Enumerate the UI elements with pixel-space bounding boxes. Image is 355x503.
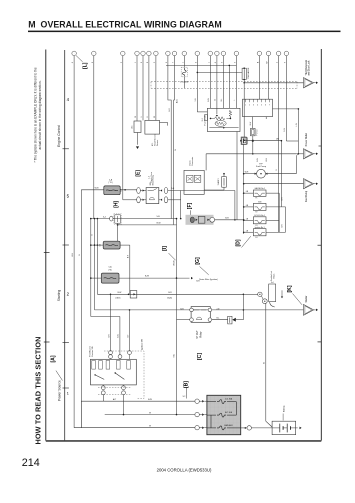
gray connector E (5-A) xyxy=(104,186,120,195)
svg-text:[B]: [B] xyxy=(184,381,190,388)
power wire 3 (battery main) xyxy=(74,427,195,429)
svg-text:8: 8 xyxy=(147,117,149,118)
vertical link between power wires xyxy=(80,401,82,428)
terminal circle T12 xyxy=(208,51,213,56)
auxiliary vertical near bus xyxy=(236,132,238,220)
svg-text:Main Relay: Main Relay xyxy=(153,175,155,185)
svg-text:[F]: [F] xyxy=(187,202,193,209)
wire bend to ignition feed xyxy=(91,316,120,318)
wire down from meter output xyxy=(297,109,299,154)
wire ignition AM2 down xyxy=(123,395,125,415)
svg-text:3: 3 xyxy=(253,104,254,106)
wire from T4 down to sensor box 1 xyxy=(136,56,138,121)
svg-text:(*A-B): (*A-B) xyxy=(167,297,172,300)
ignition feed wire xyxy=(119,277,190,279)
terminal circle T14 xyxy=(221,51,226,56)
sender box left pin xyxy=(205,115,208,121)
wire bend to crank wire xyxy=(96,219,98,295)
wire from T13 down to fuel sender box xyxy=(216,56,218,109)
+B distribution wire xyxy=(166,64,236,66)
wire from T2 down xyxy=(93,56,95,219)
direction arrow near fusible link xyxy=(281,290,283,296)
starter signal wire xyxy=(95,309,304,311)
fusible link row 1-2 link xyxy=(235,402,237,416)
noise filter box xyxy=(198,216,205,223)
svg-text:and Door Lock: and Door Lock xyxy=(308,60,311,76)
svg-text:B-W: B-W xyxy=(157,222,161,224)
vertical from crank junction down to relay contact xyxy=(242,294,244,319)
wire down to ignition SW 2 xyxy=(119,317,121,355)
sender internal resistor vertical xyxy=(229,110,232,116)
terminal circle T6 xyxy=(147,51,152,56)
svg-text:214: 214 xyxy=(22,457,40,469)
svg-text:[G]: [G] xyxy=(195,257,201,265)
wire out of gray connector 3-6 xyxy=(120,244,130,246)
wire from T16 down to combination meter xyxy=(258,56,260,99)
left border section tick at y=252 xyxy=(44,251,50,253)
main center vertical wire x=176.5 xyxy=(176,219,178,415)
svg-text:[H]: [H] xyxy=(114,201,120,208)
relay output vertical xyxy=(180,191,182,219)
wire fusible block to battery xyxy=(241,427,247,429)
wire T19 horizontal to junction xyxy=(286,140,298,142)
svg-text:Fuel Sender: Fuel Sender xyxy=(205,114,207,125)
wire bus to fuse 1 xyxy=(244,192,254,194)
out-connector triangle 3 xyxy=(304,179,314,189)
fusible link pictorial box xyxy=(269,284,276,302)
svg-text:ALT 40A: ALT 40A xyxy=(225,411,233,414)
bus tick y=392.3 (small) xyxy=(63,387,69,389)
svg-text:B-W: B-W xyxy=(250,121,252,125)
right border section tick at y=342 xyxy=(318,341,322,343)
meter bottom pin 2 xyxy=(265,117,267,119)
svg-text:Starter: Starter xyxy=(305,295,308,302)
wire fuse 1 output xyxy=(266,192,279,194)
wire down to ignition SW 3 xyxy=(129,310,131,351)
wire T11 to fuel sender box xyxy=(197,111,207,113)
relay output bend down to filter wire xyxy=(234,191,236,220)
ignition switch lever 2 xyxy=(115,373,124,379)
vertical wire B-Y xyxy=(129,245,131,294)
svg-text:* The system shown here is an: * The system shown here is an EXAMPLE ON… xyxy=(34,67,38,162)
wire crank junction to circle xyxy=(243,293,257,295)
terminal circle T2 xyxy=(92,51,97,56)
wire gray connector E to relay xyxy=(120,189,137,191)
sensor box 2 output wire xyxy=(160,121,168,123)
svg-text:9: 9 xyxy=(141,117,143,118)
fusible link AM2 symbol xyxy=(182,68,186,77)
terminal circle T10 xyxy=(182,51,187,56)
terminal circle T8 xyxy=(166,51,171,56)
J/B fuse box 1 (GAUGE No.1) xyxy=(253,190,266,196)
fuse 7.5A GAUGE xyxy=(242,68,246,79)
right border tick y=146 xyxy=(319,145,322,147)
wire meter pin to fuse xyxy=(252,119,254,128)
svg-text:W: W xyxy=(175,149,177,151)
terminal circle T7 xyxy=(154,51,159,56)
svg-text:B-W: B-W xyxy=(145,276,149,278)
auxiliary vertical wire xyxy=(280,141,282,207)
gray band behind noise filter chain xyxy=(186,215,214,225)
wire to triangle 3 xyxy=(244,183,304,185)
wire from T15 down to fuel sender box xyxy=(235,56,237,109)
wire bus to fuse 4 xyxy=(244,231,254,233)
fuel pump motor circle xyxy=(257,169,266,178)
wire terminal to battery feed xyxy=(265,303,266,305)
pointer line for [A] xyxy=(56,371,63,381)
relay corner terminals xyxy=(190,308,194,312)
terminal circle T19 xyxy=(284,51,289,56)
bus tick y=342.4 xyxy=(63,341,69,343)
svg-text:Position SW: Position SW xyxy=(91,346,94,357)
terminal circle T1 xyxy=(72,51,77,56)
terminal ellipse on ACC wire xyxy=(110,216,113,221)
svg-text:DM: DM xyxy=(276,138,279,140)
fusible link row 2-3 link xyxy=(210,415,212,428)
pointer line for [G] xyxy=(200,267,209,275)
wire from T12 down to fuel sender box xyxy=(209,56,211,109)
DM wire xyxy=(244,140,282,142)
wire from T11 down xyxy=(196,56,198,112)
J/B fuse box 2 (IGN) xyxy=(253,203,266,210)
svg-text:Ignition SW: Ignition SW xyxy=(141,338,144,350)
second wire to check area xyxy=(118,224,177,226)
connector circles into fusible link block xyxy=(195,399,199,403)
system number bus line xyxy=(64,50,66,441)
small connector box on DM wire xyxy=(242,138,247,145)
gray connector 5-A lower xyxy=(101,273,119,283)
svg-text:L-W: L-W xyxy=(296,123,298,127)
lower connector dashed lines xyxy=(98,386,131,388)
svg-text:MAIN AM1: MAIN AM1 xyxy=(224,424,233,427)
svg-text:B-W: B-W xyxy=(118,292,122,294)
svg-text:Park/Neutral: Park/Neutral xyxy=(88,346,91,357)
combination meter box xyxy=(243,99,273,116)
svg-text:Battery: Battery xyxy=(283,404,286,412)
diode component near relay xyxy=(228,316,232,324)
svg-text:ACC: ACC xyxy=(176,98,179,103)
J/B fuse box 3 (ECU-IG No.1) xyxy=(253,217,266,224)
crank signal wire xyxy=(97,293,243,295)
noise filter input connector xyxy=(190,217,194,223)
inline connector on crank wire xyxy=(130,291,137,298)
svg-text:G-W: G-W xyxy=(284,128,286,132)
junction block dashed boundary top xyxy=(151,81,297,83)
svg-text:B-R: B-R xyxy=(225,217,229,219)
svg-text:W-B: W-B xyxy=(95,188,100,190)
wire down to ignition SW 1 xyxy=(110,294,112,350)
J/B fuse box 4 (Ignition No.1) xyxy=(253,229,266,236)
wire below fusible link AM2 xyxy=(183,77,185,89)
terminal circle pair xyxy=(258,292,262,296)
relay terminal ellipse left bottom xyxy=(137,197,141,203)
terminal circle T9 xyxy=(172,51,177,56)
fuel sender gauge box xyxy=(207,108,240,131)
relay terminal ellipse right bottom xyxy=(164,197,168,203)
relay left wire to center vertical xyxy=(177,319,190,321)
ignition switch box xyxy=(91,359,137,385)
out-connector triangle K (to starter) xyxy=(304,305,314,316)
terminal circle T3 xyxy=(121,51,126,56)
svg-text:30: 30 xyxy=(154,116,156,118)
sensor box 2 xyxy=(145,120,160,134)
svg-text:P 1 Two: P 1 Two xyxy=(257,129,259,135)
meter output wire right xyxy=(273,108,299,110)
gray connector 3-6 xyxy=(103,241,120,249)
wire from T5 down to sensor box 2 xyxy=(142,56,144,121)
sender resistor coil ellipse xyxy=(215,121,226,127)
svg-text:[E]: [E] xyxy=(135,170,141,177)
svg-text:2.0L 80A: 2.0L 80A xyxy=(225,398,233,401)
noise filter output wire xyxy=(215,219,244,221)
diagram left border xyxy=(45,50,47,441)
svg-text:ECU-IG No.1: ECU-IG No.1 xyxy=(255,215,265,217)
fusible link row 3 xyxy=(207,427,216,429)
terminal circle T4 xyxy=(135,51,140,56)
pointer line for [L] xyxy=(76,56,83,62)
svg-text:Fuel Pump: Fuel Pump xyxy=(306,190,308,202)
fusible link row 1 xyxy=(207,401,216,403)
power wire 2 (AM1) xyxy=(105,414,195,416)
pointer line for [K] xyxy=(293,294,303,305)
svg-text:Connector: Connector xyxy=(191,156,194,166)
EFI fuse near pump xyxy=(222,177,227,188)
svg-text:HOW TO READ THIS SECTION: HOW TO READ THIS SECTION xyxy=(34,336,43,444)
svg-text:actual circuit shown in the wi: actual circuit shown in the wiring diagr… xyxy=(38,80,42,149)
svg-text:Power Outlet: Power Outlet xyxy=(305,133,308,147)
fusible link row 2 xyxy=(207,414,216,416)
wire fuse down to junction xyxy=(252,136,254,154)
wire T2 junction to left verticals xyxy=(91,218,110,220)
meter bottom pin xyxy=(252,117,254,120)
battery feed vertical wire xyxy=(265,304,267,422)
ignition switch lever 1 xyxy=(95,375,104,380)
svg-text:1: 1 xyxy=(67,392,69,396)
junction block dashed boundary bottom xyxy=(151,87,297,89)
svg-text:[I]: [I] xyxy=(162,246,168,251)
bus tick y=148.8 xyxy=(63,148,69,150)
ignition SW dashed outline xyxy=(104,351,144,399)
out-connector triangle 2 (power outlet) xyxy=(304,149,314,159)
ignition SW connector circles xyxy=(109,351,113,355)
svg-text:2.0L AM2: 2.0L AM2 xyxy=(180,81,189,84)
svg-text:W: W xyxy=(215,99,217,101)
wire fuse 3 output xyxy=(266,219,279,221)
sender bottom internal wire xyxy=(209,127,238,129)
svg-text:[K]: [K] xyxy=(287,285,293,292)
svg-text:Power Source: Power Source xyxy=(58,380,62,401)
svg-text:Ignition No.1: Ignition No.1 xyxy=(255,226,265,229)
wire to gauge fuse xyxy=(197,71,242,73)
svg-text:5: 5 xyxy=(261,104,262,106)
wire from T9 down with jog xyxy=(173,56,176,225)
svg-text:( *B ): ( *B ) xyxy=(108,269,112,271)
svg-text:Theft Deterrent: Theft Deterrent xyxy=(305,60,308,76)
power wire 1 (ALT) xyxy=(81,400,195,402)
svg-text:( *B ): ( *B ) xyxy=(108,182,113,184)
svg-text:Block: Block xyxy=(274,274,276,279)
wire fuse 2 output xyxy=(266,206,286,208)
wire from T17 down to combination meter xyxy=(268,56,270,99)
svg-text:4: 4 xyxy=(257,104,258,106)
vertical wire x=94.5 xyxy=(94,219,96,310)
wire from T10 into fusible link AM2 xyxy=(183,56,185,68)
diagram bottom border xyxy=(46,440,322,442)
small component on fuse bus xyxy=(241,137,246,145)
sender potentiometer xyxy=(215,117,225,120)
right border section tick at y=245 xyxy=(318,244,322,246)
svg-text:3-4: 3-4 xyxy=(271,282,274,284)
svg-text:[D]: [D] xyxy=(235,239,241,246)
svg-text:[L]: [L] xyxy=(82,62,88,69)
svg-text:B-W: B-W xyxy=(257,158,259,162)
ignition SW lower connectors xyxy=(101,386,105,390)
svg-text:B-W: B-W xyxy=(208,98,210,102)
junction block dashed boundary left side xyxy=(150,82,152,89)
pointer line for [F] xyxy=(190,210,192,215)
battery feed corner diagonal xyxy=(266,421,272,427)
svg-text:Fuel Pump: Fuel Pump xyxy=(256,166,267,168)
ACC out wire xyxy=(206,153,296,155)
battery pointer xyxy=(282,414,284,421)
svg-text:W: W xyxy=(149,412,151,414)
wire fuel pump feed to triangle xyxy=(295,156,297,174)
svg-text:L: L xyxy=(234,100,236,101)
relay output wires right xyxy=(168,190,235,192)
svg-text:[C]: [C] xyxy=(197,353,203,360)
wire from gauge fuse down xyxy=(243,79,245,82)
relay terminal ellipse left top xyxy=(137,188,141,194)
terminal circle T13 xyxy=(215,51,220,56)
diode block 2 inside check connector xyxy=(194,175,200,182)
wire from T1 down left long run xyxy=(73,56,75,428)
terminal circle T17 xyxy=(266,51,271,56)
svg-text:7.5A GAUGE: 7.5A GAUGE xyxy=(247,67,250,79)
EFI relay box xyxy=(146,188,159,204)
svg-text:2004 COROLLA (EWD533U): 2004 COROLLA (EWD533U) xyxy=(157,467,212,472)
svg-text:1: 1 xyxy=(245,104,246,106)
small fuse under meter xyxy=(251,128,256,135)
svg-text:GAUGE No.1: GAUGE No.1 xyxy=(254,187,265,190)
svg-text:M OVERALL ELECTRICAL WIRING D: M OVERALL ELECTRICAL WIRING DIAGRAM xyxy=(28,19,222,29)
svg-text:(*B-W): (*B-W) xyxy=(174,260,176,266)
bus tick y=245 xyxy=(63,244,69,246)
title underline xyxy=(28,31,341,32)
relay bottom contact wire xyxy=(212,319,228,321)
fuse on ACC wire xyxy=(115,215,121,223)
pointer line for [D] xyxy=(242,236,251,247)
sensor box 1 xyxy=(134,121,141,133)
svg-text:ST CUT: ST CUT xyxy=(197,330,199,339)
wire from +B to sender resistor xyxy=(228,65,230,108)
svg-text:7: 7 xyxy=(269,104,270,106)
wire T3 to relay coil xyxy=(123,199,137,201)
pointer line for [I] xyxy=(169,253,176,260)
svg-text:16: 16 xyxy=(135,116,137,118)
diode block 1 inside check connector xyxy=(187,175,193,182)
wire bus to fuse 3 xyxy=(244,219,254,221)
wire bus to fuse 2 xyxy=(244,206,254,208)
svg-text:Fusible Link: Fusible Link xyxy=(271,271,273,281)
svg-text:Starting: Starting xyxy=(57,290,61,302)
wire from T18 down to fuse bus xyxy=(278,56,280,233)
shield ground arrow under sensor box 1 xyxy=(137,133,139,145)
svg-text:2: 2 xyxy=(249,104,250,106)
wire from T19 down xyxy=(285,56,287,141)
junction block dashed boundary right side xyxy=(296,82,298,89)
fuse output bus B xyxy=(285,207,287,232)
battery box xyxy=(272,421,296,435)
noise filter output circle xyxy=(210,217,215,222)
svg-text:15A EFI: 15A EFI xyxy=(217,178,220,185)
noise suppressor out-connector triangle xyxy=(304,78,314,88)
fusible link block (gray) xyxy=(207,395,241,434)
wire from T8 down with jog xyxy=(168,56,171,219)
vertical wire x=81 long run xyxy=(80,190,82,428)
check connector box xyxy=(184,170,204,194)
wire from T7 down to sensor box 2 xyxy=(155,56,157,121)
battery output arrow xyxy=(296,427,298,429)
relay terminal ellipse right top xyxy=(164,188,168,194)
svg-text:Sensor: Sensor xyxy=(157,139,159,146)
svg-text:Engine Control: Engine Control xyxy=(57,125,61,147)
svg-text:F1: F1 xyxy=(256,198,258,200)
terminal circle T16 xyxy=(257,51,262,56)
wire pump fuse top xyxy=(223,174,225,177)
svg-text:F4: F4 xyxy=(256,237,258,239)
svg-text:B-L: B-L xyxy=(221,99,223,102)
svg-text:Noise Filter (Ignition): Noise Filter (Ignition) xyxy=(199,278,218,281)
svg-text:6: 6 xyxy=(265,104,266,106)
wire to noise suppressor triangle xyxy=(244,82,303,84)
arrow into diode component xyxy=(231,319,233,321)
noise filter arrow 1 xyxy=(196,219,198,221)
svg-text:F2: F2 xyxy=(256,212,258,214)
vertical wire from ACC line down xyxy=(205,154,207,171)
wire into gray connector 3-6 xyxy=(91,244,103,246)
ACC horizontal wire (5-B) xyxy=(113,218,177,220)
terminal circle T15 xyxy=(234,51,239,56)
diagram right border xyxy=(320,49,322,441)
wire into lower gray connector xyxy=(91,277,102,279)
potentiometer wiper arrow xyxy=(216,108,218,114)
noise filter arrow 2 xyxy=(207,219,209,221)
terminal circle T18 xyxy=(276,51,281,56)
wire left of gray connector E xyxy=(81,189,104,191)
svg-text:(*A-R): (*A-R) xyxy=(115,297,120,300)
wire from T3 down to EFI relay xyxy=(122,56,124,200)
ignition switch terminals xyxy=(92,361,96,370)
fuse bus vertical wire xyxy=(243,83,245,137)
battery cells xyxy=(279,424,281,433)
wire from T6 down to sensor box 2 xyxy=(148,56,150,121)
fuse output bus A xyxy=(278,193,280,232)
ST cut relay box xyxy=(191,307,210,323)
svg-text:B-L: B-L xyxy=(217,318,220,320)
wire pump fuse bottom to check box xyxy=(223,187,225,190)
fuel pump wire right xyxy=(266,173,268,175)
left border section tick at y=342 xyxy=(44,341,50,343)
svg-text:B-W: B-W xyxy=(117,334,119,338)
pointer line for [B] xyxy=(186,387,188,398)
terminal circle T5 xyxy=(141,51,146,56)
svg-text:[A]: [A] xyxy=(50,355,56,362)
svg-text:Relay: Relay xyxy=(201,331,203,338)
terminal circle T11 xyxy=(195,51,200,56)
svg-text:W: W xyxy=(149,425,151,427)
wire ignition AM1 down xyxy=(102,395,104,402)
wire from T14 down to fuel sender box xyxy=(222,56,224,109)
